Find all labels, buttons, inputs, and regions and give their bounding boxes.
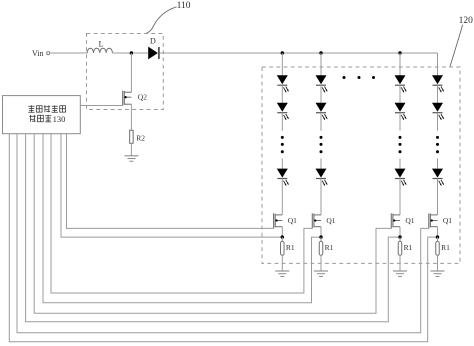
transistor Q1 string 3 xyxy=(391,213,415,228)
wire LED segment string 4 xyxy=(437,85,439,103)
svg-text:R1: R1 xyxy=(441,243,450,252)
wire to R1 string 4 xyxy=(437,237,439,241)
ground string 4 xyxy=(431,271,445,276)
LED D2c string 3 xyxy=(395,103,407,120)
wire Q2 source to R2 xyxy=(130,104,132,130)
svg-text:R1: R1 xyxy=(404,243,413,252)
wire current sense ch1 to IC130 xyxy=(61,134,282,237)
svg-text:Q1: Q1 xyxy=(326,216,335,225)
svg-text:R2: R2 xyxy=(136,134,145,143)
LED D2b string 2 xyxy=(316,103,328,120)
ground string 1 xyxy=(275,271,289,276)
label 120 with leader line xyxy=(450,16,473,67)
node rail tap string 2 xyxy=(319,51,322,54)
wire Q1 source string 4 xyxy=(437,227,439,237)
LED D3d string 4 xyxy=(432,169,444,186)
node source sense string 1 xyxy=(281,235,284,238)
svg-text:D: D xyxy=(150,37,156,46)
wire R1 to ground string 4 xyxy=(437,255,439,271)
LED D1b string 2 xyxy=(316,75,328,92)
svg-text:110: 110 xyxy=(177,1,191,11)
wire LED segment 2 string 2 xyxy=(320,113,322,131)
wire gate drive ch4 from IC130 to Q1d xyxy=(17,134,429,333)
transistor Q1 string 1 xyxy=(274,213,298,228)
svg-text:R1: R1 xyxy=(286,243,295,252)
ground below R2 xyxy=(124,156,138,161)
resistor R1 string 2 xyxy=(319,241,333,255)
wire rail to LED string 4 xyxy=(437,53,439,75)
wire gate of Q2 from IC 130 xyxy=(80,105,123,107)
wire LED segment string 2 xyxy=(320,85,322,103)
LED D1a string 1 xyxy=(277,75,289,92)
wire LED segment string 1 xyxy=(281,85,283,103)
wire rail to LED string 2 xyxy=(320,53,322,75)
transistor Q1 string 2 xyxy=(312,213,336,228)
driver IC block 130 (backlight driver integrated circuit) xyxy=(3,96,81,134)
svg-text:130: 130 xyxy=(53,114,66,124)
wire LED to Q1 drain string 1 xyxy=(281,179,283,215)
node source sense string 2 xyxy=(319,235,322,238)
node rail tap string 1 xyxy=(281,51,284,54)
wire R1 to ground string 1 xyxy=(281,255,283,271)
svg-text:Q2: Q2 xyxy=(138,93,147,102)
wire current sense ch4 to IC130 xyxy=(9,134,437,342)
wire to last LED string 4 xyxy=(437,158,439,168)
svg-text:120: 120 xyxy=(459,16,474,26)
node junction L-D-Q2 xyxy=(130,51,133,54)
ellipsis more LED strings xyxy=(343,76,376,79)
wire gate drive ch2 from IC130 to Q1b xyxy=(51,134,312,293)
wire to last LED string 3 xyxy=(399,158,401,168)
wire LED to Q1 drain string 4 xyxy=(437,179,439,215)
LED D3a string 1 xyxy=(277,169,289,186)
wire LED to Q1 drain string 2 xyxy=(320,179,322,215)
LED D3c string 3 xyxy=(395,169,407,186)
wire Q1 source string 1 xyxy=(281,227,283,237)
wire LED segment 2 string 4 xyxy=(437,113,439,131)
resistor R1 string 1 xyxy=(281,241,295,255)
wire Q1 source string 2 xyxy=(320,227,322,237)
wire current sense ch3 to IC130 xyxy=(26,134,400,322)
wire gate drive ch3 from IC130 to Q1c xyxy=(34,134,391,314)
svg-text:Vin: Vin xyxy=(32,49,44,58)
wire to R1 string 3 xyxy=(399,237,401,241)
LED D1c string 3 xyxy=(395,75,407,92)
transistor Q2 xyxy=(123,91,148,106)
wire Q1 source string 3 xyxy=(399,227,401,237)
svg-text:Q1: Q1 xyxy=(288,216,297,225)
LED D3b string 2 xyxy=(316,169,328,186)
resistor R2 xyxy=(130,130,146,143)
wire to R1 string 1 xyxy=(281,237,283,241)
wire to last LED string 1 xyxy=(281,158,283,168)
wire LED segment 2 string 3 xyxy=(399,113,401,131)
wire to R1 string 2 xyxy=(320,237,322,241)
node rail tap string 3 xyxy=(398,51,401,54)
LED D2d string 4 xyxy=(432,103,444,120)
wire diode to LED rail xyxy=(160,52,438,54)
node source sense string 3 xyxy=(398,235,401,238)
transistor Q1 string 4 xyxy=(429,213,453,228)
wire rail to LED string 3 xyxy=(399,53,401,75)
label 110 with leader line xyxy=(147,1,191,33)
wire Vin to inductor L xyxy=(50,52,87,54)
wire R2 to ground xyxy=(130,143,132,156)
node source sense string 4 xyxy=(436,235,439,238)
node Vin input terminal xyxy=(32,49,50,58)
dashed box 120 LED array xyxy=(262,67,460,263)
inductor L xyxy=(87,39,112,53)
ellipsis more LEDs string 4 xyxy=(436,136,439,153)
ground string 2 xyxy=(314,271,328,276)
svg-text:Q1: Q1 xyxy=(443,216,452,225)
diode D xyxy=(148,37,159,60)
wire LED segment string 3 xyxy=(399,85,401,103)
ellipsis more LEDs string 3 xyxy=(399,136,402,153)
wire current sense ch2 to IC130 xyxy=(43,134,321,303)
wire rail to LED string 1 xyxy=(281,53,283,75)
svg-text:R1: R1 xyxy=(325,243,334,252)
wire L to diode D xyxy=(112,52,148,54)
wire LED to Q1 drain string 3 xyxy=(399,179,401,215)
resistor R1 string 3 xyxy=(398,241,412,255)
svg-text:Q1: Q1 xyxy=(405,216,414,225)
wire drain of Q2 xyxy=(130,53,132,92)
wire R1 to ground string 3 xyxy=(399,255,401,271)
ground string 3 xyxy=(393,271,407,276)
ellipsis more LEDs string 1 xyxy=(281,136,284,153)
ellipsis more LEDs string 2 xyxy=(320,136,323,153)
LED D2a string 1 xyxy=(277,103,289,120)
resistor R1 string 4 xyxy=(436,241,450,255)
wire LED segment 2 string 1 xyxy=(281,113,283,131)
wire R1 to ground string 2 xyxy=(320,255,322,271)
svg-text:L: L xyxy=(99,39,104,48)
LED D1d string 4 xyxy=(432,75,444,92)
dashed box 110 boost stage xyxy=(87,34,164,110)
wire to last LED string 2 xyxy=(320,158,322,168)
wire gate drive ch1 from IC130 to Q1a xyxy=(67,134,274,229)
